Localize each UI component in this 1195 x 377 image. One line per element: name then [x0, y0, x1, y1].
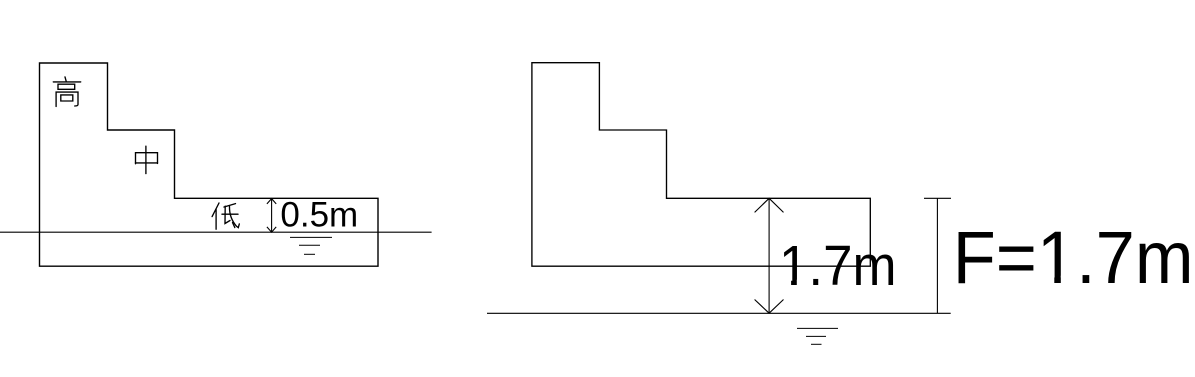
svg-text:F=1.7m: F=1.7m: [953, 216, 1194, 299]
svg-text:1.7m: 1.7m: [779, 234, 897, 298]
svg-text:0.5m: 0.5m: [280, 196, 358, 235]
